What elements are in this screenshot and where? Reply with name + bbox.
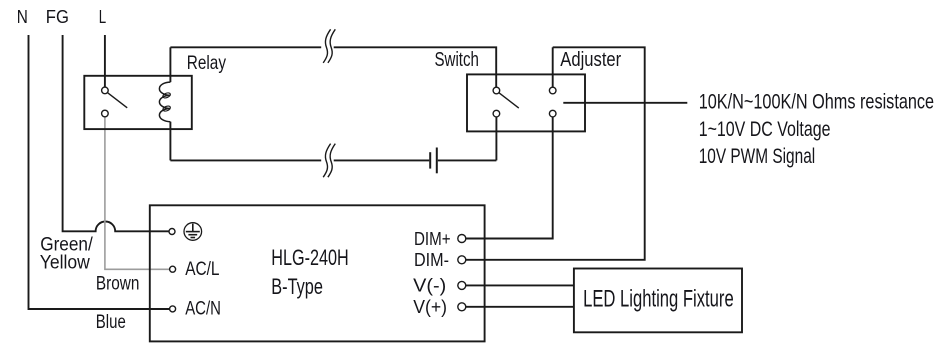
DIM- terminal circle (458, 256, 466, 264)
svg-text:Switch: Switch (435, 49, 479, 71)
wire L top segment (104, 35, 106, 87)
AC/L terminal circle (170, 266, 176, 272)
adjuster contact bottom (549, 110, 556, 117)
ground terminal circle (169, 229, 175, 235)
svg-text:10V PWM Signal: 10V PWM Signal (699, 145, 816, 168)
svg-text:Blue: Blue (96, 311, 126, 333)
switch blade (499, 93, 519, 108)
break mark on bottom wire (323, 144, 335, 178)
relay switch blade (108, 93, 128, 108)
bottom wire right segment (438, 159, 497, 161)
svg-text:AC/L: AC/L (185, 258, 219, 280)
switch contact top (493, 87, 500, 94)
wire FG with hop over L wire (63, 35, 169, 231)
svg-text:Yellow: Yellow (40, 252, 91, 274)
svg-text:V(+): V(+) (413, 297, 447, 317)
break mark on top wire (323, 29, 335, 63)
svg-text:LED Lighting Fixture: LED Lighting Fixture (583, 285, 734, 312)
battery long bar (436, 148, 438, 174)
relay coil wire vertical (169, 47, 171, 82)
relay box (84, 76, 192, 129)
DIM+ terminal circle (458, 235, 466, 243)
svg-text:L: L (99, 6, 106, 27)
svg-text:HLG-240H: HLG-240H (271, 245, 348, 270)
wire from switch bottom contact down to bottom wire (495, 117, 497, 160)
V(+) terminal circle (458, 303, 466, 311)
svg-text:Adjuster: Adjuster (560, 49, 621, 71)
svg-text:DIM-: DIM- (414, 250, 449, 270)
protective earth symbol (184, 223, 202, 241)
wire from adjuster bottom contact to DIM+ (466, 117, 553, 239)
bottom wire left segment (170, 159, 321, 161)
LED lighting fixture box (574, 269, 742, 333)
svg-text:FG: FG (46, 6, 69, 27)
top wire left segment (170, 46, 321, 48)
switch/adjuster contact box (467, 74, 585, 131)
adjuster contact top (549, 87, 556, 94)
relay contact bottom (102, 110, 109, 117)
wire L brown (gray) segment to AC/L (105, 117, 170, 269)
svg-text:AC/N: AC/N (185, 298, 221, 320)
svg-text:DIM+: DIM+ (414, 229, 451, 249)
svg-text:N: N (17, 6, 28, 27)
svg-text:1~10V DC Voltage: 1~10V DC Voltage (699, 118, 831, 141)
svg-text:10K/N~100K/N Ohms resistance: 10K/N~100K/N Ohms resistance (699, 90, 934, 113)
relay coil curls (162, 92, 171, 99)
svg-text:Brown: Brown (96, 272, 139, 294)
pointer line to annotation (563, 102, 687, 104)
relay coil arcs (159, 82, 170, 122)
top wire right segment down to switch (334, 47, 497, 87)
adjuster box top and right edge down to DIM- wire (466, 47, 645, 259)
wire V(-) to LED box (466, 284, 574, 286)
relay contact top (102, 87, 109, 94)
wire V(+) to LED box (466, 306, 574, 308)
AC/N terminal circle (170, 306, 176, 312)
battery short bar (429, 152, 431, 168)
wire N (29, 35, 170, 309)
V(-) terminal circle (458, 281, 466, 289)
switch contact bottom (493, 110, 500, 117)
svg-text:Relay: Relay (187, 52, 226, 74)
adjuster left lead down to contact (552, 47, 554, 87)
bottom wire middle segment (334, 159, 430, 161)
svg-text:B-Type: B-Type (271, 274, 323, 299)
main box HLG-240H (150, 205, 485, 341)
svg-text:V(-): V(-) (413, 276, 446, 296)
